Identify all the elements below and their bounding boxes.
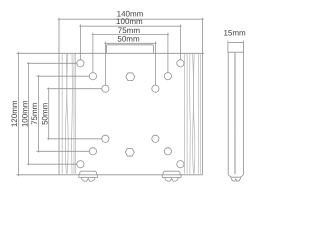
dimension 50mm left line — [48, 88, 50, 141]
extension line 50mm top right — [154, 42, 156, 89]
svg-text:100mm: 100mm — [116, 17, 143, 26]
hole VESA50 bottom-right — [152, 135, 159, 142]
hole VESA75 bottom-right — [164, 148, 171, 155]
bottom tab left — [79, 171, 98, 181]
bottom tab right — [162, 171, 181, 181]
svg-text:50mm: 50mm — [41, 102, 50, 125]
extension line 50mm left bottom row — [47, 138, 105, 140]
extension line 75mm top right — [167, 33, 169, 76]
dimension 75mm left line — [37, 75, 39, 153]
plate right edge front view — [201, 18, 203, 175]
hole VESA75 top-left — [89, 73, 96, 80]
hole VESA100 bottom-right — [177, 161, 184, 168]
svg-text:50mm: 50mm — [117, 35, 140, 44]
wall hook bump top — [107, 45, 154, 54]
hole VESA75 top-right — [164, 73, 171, 80]
side view foot — [228, 175, 243, 181]
extension line 50mm top left — [104, 42, 106, 89]
hole VESA100 top-right — [177, 60, 184, 67]
keyhole center top — [126, 73, 135, 81]
extension line 100mm left top row — [27, 62, 80, 64]
dimension 140mm line — [58, 18, 204, 20]
side view fold lines — [234, 52, 235, 174]
extension line 50mm left top row — [47, 88, 105, 90]
extension line 100mm top right — [179, 24, 181, 63]
dimension 120mm line — [18, 52, 20, 177]
extension line 75mm left bottom row — [36, 150, 93, 152]
hole VESA100 bottom-left — [77, 161, 84, 168]
dimension 100mm top line — [79, 25, 181, 27]
extension line 75mm left top row — [36, 75, 93, 77]
hole VESA100 top-left — [77, 60, 84, 67]
side view top cap — [228, 43, 244, 53]
left fold band shading — [62, 54, 75, 174]
hole VESA75 bottom-left — [89, 148, 96, 155]
dimension 50mm top line — [104, 42, 156, 44]
plate left edge front view — [58, 18, 60, 175]
side view body left edge — [227, 52, 229, 175]
extension line 100mm top left — [79, 24, 81, 63]
side view body right edge — [242, 52, 244, 175]
right fold band shading — [184, 54, 200, 174]
side view dimension tick left — [227, 41, 229, 43]
side view dimension tick right — [243, 41, 245, 43]
plate top edge with left extension to 120mm dimension — [17, 52, 204, 54]
extension line 75mm top left — [92, 33, 94, 76]
hole VESA50 top-left — [102, 85, 109, 92]
extension line 100mm left bottom row — [27, 163, 80, 165]
dimension 75mm top line — [92, 34, 169, 36]
svg-text:75mm: 75mm — [30, 102, 39, 125]
plate bottom edge with left extension to 120mm dimension — [17, 174, 203, 176]
hole VESA50 top-right — [152, 85, 159, 92]
hole VESA50 bottom-left — [102, 135, 109, 142]
svg-text:15mm: 15mm — [223, 29, 246, 38]
svg-text:100mm: 100mm — [21, 100, 30, 127]
svg-text:120mm: 120mm — [10, 100, 19, 127]
dimension 100mm left line — [28, 62, 30, 165]
keyhole center bottom — [125, 148, 134, 156]
